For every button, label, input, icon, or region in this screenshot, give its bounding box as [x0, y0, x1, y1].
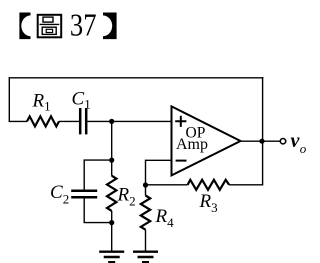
wire: R4 to ground [145, 230, 147, 251]
wire: R2 to node C [111, 211, 113, 223]
svg-text:R1: R1 [32, 91, 51, 114]
wire: R3 to right vertical [229, 141, 263, 185]
wire: C2 bottom to node C [84, 198, 112, 222]
svg-text:R3: R3 [199, 191, 218, 215]
wire: R1 to C1 [59, 120, 79, 122]
svg-text:C1: C1 [72, 89, 91, 112]
wire: minus input [146, 159, 172, 161]
title character 圖 middle bar [40, 23, 60, 25]
ground left [99, 252, 124, 263]
resistor R1 [27, 116, 59, 126]
svg-text:R2: R2 [117, 185, 136, 209]
capacitor C1 [80, 108, 86, 134]
capacitor C2 [71, 191, 97, 197]
resistor R3 [188, 180, 230, 190]
output terminal open circle [280, 139, 285, 144]
node E output junction dot [259, 139, 264, 144]
wire: node B left to C2 branch [84, 160, 112, 190]
wire: left vertical [8, 77, 10, 121]
wire: node D to R3 [146, 184, 188, 186]
wire: node B to R2 [111, 160, 113, 176]
wire: node C to ground [111, 223, 113, 251]
title bracket 【 [19, 13, 30, 40]
resistor R4 [141, 196, 150, 230]
resistor R2 [107, 176, 116, 211]
node A junction dot after C1 [109, 119, 114, 124]
op-amp minus sign [176, 160, 187, 162]
wire: right vertical from top to output node [262, 77, 264, 141]
svg-text:o: o [300, 141, 307, 156]
svg-text:Amp: Amp [176, 136, 208, 153]
wire: op-amp output [241, 140, 281, 142]
title character 圖 lower inner box [46, 29, 52, 32]
wire: top feedback wire [9, 77, 263, 79]
op-amp plus sign [175, 116, 186, 127]
svg-text:C2: C2 [50, 182, 69, 207]
title character 圖 outer box [38, 15, 62, 38]
title bracket 】 [103, 13, 117, 40]
wire: minus input down to node D [145, 160, 147, 185]
title character 圖 lower outer box [42, 27, 56, 34]
wire: C1 to op-amp plus input [87, 120, 171, 122]
ground right [133, 252, 158, 263]
node D junction dot [143, 182, 148, 187]
wire: node D to R4 [145, 185, 147, 196]
svg-text:37: 37 [70, 7, 97, 42]
title character 圖 top mouth [43, 17, 53, 22]
wire: node A down to node B [111, 121, 113, 160]
op-amp U1 [172, 106, 241, 175]
node C junction dot [109, 220, 114, 225]
node B junction dot [109, 158, 114, 163]
svg-text:R4: R4 [155, 206, 175, 230]
wire: left end to R1 [9, 120, 27, 122]
